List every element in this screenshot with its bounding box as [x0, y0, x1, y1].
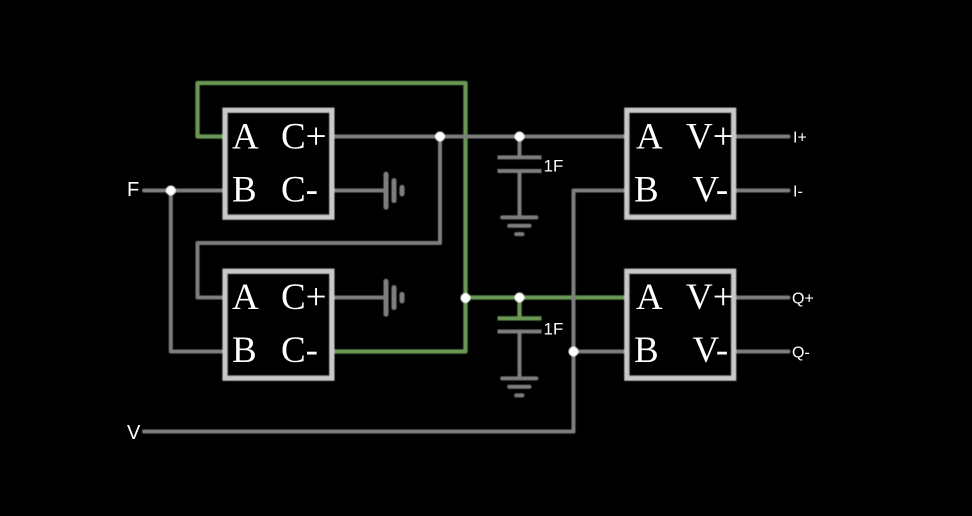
svg-text:I-: I- — [793, 184, 803, 201]
wire green net: A of U1 around top to C- of U2 — [198, 83, 466, 352]
svg-text:V+: V+ — [686, 117, 734, 158]
ground symbol at C+ of U2 — [386, 281, 402, 314]
svg-text:A: A — [232, 117, 259, 158]
capacitor C1 plates — [498, 157, 542, 171]
node green net junction — [461, 293, 471, 303]
svg-text:1F: 1F — [544, 157, 564, 176]
text labels of U4 — [634, 277, 734, 371]
svg-text:B: B — [232, 330, 257, 371]
text labels of U1 — [232, 117, 327, 211]
svg-text:B: B — [634, 169, 659, 210]
ground symbol at C- of U1 — [386, 174, 402, 207]
svg-text:A: A — [232, 277, 259, 318]
svg-text:V-: V- — [693, 169, 729, 210]
multiplier block U4 (A,B,V+,V-) — [627, 271, 734, 378]
wire F input to node F — [144, 189, 224, 193]
capacitor C2 bottom plate — [498, 330, 542, 334]
svg-text:B: B — [634, 330, 659, 371]
svg-text:F: F — [127, 179, 139, 201]
wire C+ of U2 to ground — [333, 296, 384, 300]
wire V+ of U3 to I+ — [735, 135, 789, 139]
wire V- of U3 to I- — [735, 189, 789, 193]
node F junction — [166, 186, 176, 196]
capacitor C2 top plate (green) — [498, 316, 542, 320]
ground symbol below C2 — [502, 378, 536, 395]
wire V input to vertical V net — [144, 430, 574, 434]
svg-text:C-: C- — [281, 169, 318, 210]
multiplier block U2 (A,B,C+,C-) — [225, 271, 332, 378]
multiplier block U3 (A,B,V+,V-) — [627, 110, 734, 217]
wire capacitor C2 top lead (green) — [517, 298, 521, 319]
wire C+ net feedback down-left to A pin of U2 — [198, 137, 441, 298]
svg-text:1F: 1F — [544, 320, 564, 339]
svg-text:V: V — [127, 422, 141, 444]
wire capacitor C1 bottom lead to ground — [518, 171, 522, 218]
node C2 top junction — [515, 293, 525, 303]
text labels of U2 — [232, 277, 327, 371]
wire node F down to B pin of U2 — [171, 191, 224, 352]
wire V net up to B pin of U3 — [574, 191, 627, 432]
wire V- of U4 to Q- — [735, 350, 789, 354]
wire capacitor C2 bottom lead to ground — [518, 332, 522, 379]
svg-text:V+: V+ — [686, 277, 734, 318]
svg-text:C-: C- — [281, 330, 318, 371]
ground symbol below C1 — [502, 217, 536, 234]
svg-text:B: B — [232, 169, 257, 210]
wire C+ of U1 to A of U3 — [333, 135, 626, 139]
node V net junction — [569, 347, 579, 357]
svg-text:A: A — [636, 277, 663, 318]
svg-text:C+: C+ — [281, 117, 327, 158]
node C1 top junction — [515, 132, 525, 142]
node C+ net junction — [435, 132, 445, 142]
text labels of U3 — [634, 117, 734, 211]
svg-text:C+: C+ — [281, 277, 327, 318]
wire green net to A pin of U4 — [466, 295, 627, 299]
svg-text:I+: I+ — [793, 130, 807, 147]
wire capacitor C1 top lead — [518, 137, 522, 158]
multiplier block U1 (A,B,C+,C-) — [225, 110, 332, 217]
wire V+ of U4 to Q+ — [735, 296, 789, 300]
wire C- of U1 to ground — [333, 189, 384, 193]
svg-text:V-: V- — [693, 330, 729, 371]
svg-text:Q-: Q- — [792, 345, 810, 362]
svg-text:A: A — [636, 117, 663, 158]
svg-text:Q+: Q+ — [792, 291, 814, 308]
wire V net to B pin of U4 — [574, 350, 627, 354]
